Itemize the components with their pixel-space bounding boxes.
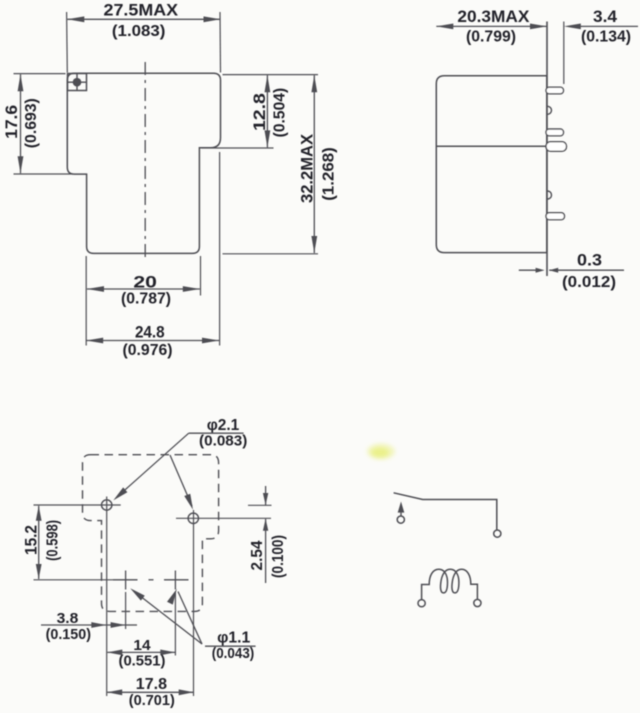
dimension 24.8 dimension line with arrows xyxy=(86,340,219,342)
svg-text:14: 14 xyxy=(133,637,151,654)
dimension 17.6 dimension line with arrows xyxy=(20,74,22,173)
dimension 3.8 line with arrows xyxy=(41,624,106,626)
hole circle 2 (phi 2.1) xyxy=(188,513,198,523)
underline of phi 2.1 label xyxy=(189,432,244,434)
dimension 15.2 bottom extension line xyxy=(34,579,114,581)
hole circle 1 (phi 2.1) xyxy=(102,500,112,510)
dimension 0.3 right arrow and leader xyxy=(549,268,558,273)
svg-text:(0.787): (0.787) xyxy=(121,291,171,308)
svg-text:24.8: 24.8 xyxy=(135,323,165,342)
leader line to cross 2 with arrow xyxy=(178,592,202,645)
svg-text:(1.083): (1.083) xyxy=(112,23,166,40)
svg-text:(0.100): (0.100) xyxy=(270,535,287,578)
svg-text:2.54: 2.54 xyxy=(249,540,266,570)
terminal circle (common) xyxy=(397,516,404,523)
svg-text:3.8: 3.8 xyxy=(57,610,79,627)
svg-text:(0.134): (0.134) xyxy=(581,29,631,46)
small bump 1 on plate xyxy=(548,106,552,114)
svg-text:12.8: 12.8 xyxy=(250,93,269,131)
pin 4 (side view) xyxy=(546,213,565,220)
dimension 20.3MAX dimension line with arrows xyxy=(436,25,547,27)
armature arrow at common terminal xyxy=(398,502,405,513)
cross 2 vertical arm (phi 1.1 hole) xyxy=(174,571,176,590)
leader line to circle 1 with arrow xyxy=(117,433,189,497)
dimension 17.6 extension lines xyxy=(14,73,66,75)
leader line to circle 2 with arrow xyxy=(170,455,192,506)
orientation mark (square with crosshair and filled circle) xyxy=(68,74,87,91)
dimension 12.8 bottom extension line xyxy=(202,147,274,149)
mounting plate vertical line (right edge extended) xyxy=(546,22,548,277)
svg-text:15.2: 15.2 xyxy=(22,525,41,555)
leader line to cross 1 with arrow xyxy=(133,591,202,645)
dimension 27.5MAX dimension line with arrows xyxy=(67,18,220,20)
svg-text:(0.083): (0.083) xyxy=(199,433,247,450)
dimension 32.2MAX bottom extension line xyxy=(223,253,319,255)
svg-text:0.3: 0.3 xyxy=(577,251,602,270)
svg-text:(0.150): (0.150) xyxy=(46,627,92,643)
dimension 17.8 dimension line with arrows xyxy=(107,691,194,693)
svg-text:(0.598): (0.598) xyxy=(45,520,62,561)
vertical line through circle 1 extending to 17.8 dim xyxy=(106,497,108,697)
dashed relay footprint outline (bottom view) xyxy=(83,455,219,612)
underline of phi 1.1 label xyxy=(205,645,256,647)
side view mid horizontal line xyxy=(436,145,547,147)
dimension 27.5MAX extension lines xyxy=(66,12,69,73)
svg-text:3.4: 3.4 xyxy=(593,7,618,26)
terminal circle (NO contact) xyxy=(494,530,501,537)
horizontal line through circle 1 / 15.2 top extension xyxy=(34,504,121,506)
svg-text:(0.799): (0.799) xyxy=(466,29,516,46)
small bump 2 on plate xyxy=(548,191,552,199)
relay body outline (side view) xyxy=(436,76,547,253)
dimension 20 right extension line xyxy=(200,256,202,296)
dimension 3.4 right arrow and leader xyxy=(564,24,581,30)
front view bottom-left extension line (shared by 20 and 24.8 dims) xyxy=(85,256,87,346)
relay body outline (front view) xyxy=(67,73,220,253)
svg-text:(0.043): (0.043) xyxy=(212,646,255,662)
dimension 15.2 dimension line with arrows xyxy=(38,506,40,579)
dimension 20 dimension line with arrows xyxy=(87,288,200,290)
dimension 32.2MAX dimension line with arrows xyxy=(313,75,315,253)
extension line for pin length 3.4 xyxy=(563,22,565,85)
pin 2 (side view) xyxy=(546,129,564,136)
dimension 0.3 left line and arrow xyxy=(519,269,539,271)
svg-text:(0.012): (0.012) xyxy=(562,274,616,291)
yellow highlighter blob xyxy=(367,444,395,460)
svg-text:φ2.1: φ2.1 xyxy=(207,417,240,434)
dash-dot line through phi1.1 crosses xyxy=(113,579,138,581)
shared top extension line for 12.8 and 32.2MAX dims xyxy=(223,74,319,76)
dimension 2.54 extension lines xyxy=(248,504,272,506)
pin 1 (side view) xyxy=(546,87,564,94)
coil terminal circle left xyxy=(418,600,425,607)
dimension 12.8 dimension line with arrows xyxy=(266,75,268,147)
cross 1 extension line down to 3.8 dim xyxy=(125,592,127,629)
dimension 14 dimension line with arrows xyxy=(107,651,175,653)
dimension 24.8 right extension line xyxy=(219,152,221,346)
svg-text:(0.504): (0.504) xyxy=(271,88,288,138)
svg-text:20.3MAX: 20.3MAX xyxy=(457,7,530,26)
vertical line through circle 2 extending to 17.8 dim xyxy=(193,510,195,696)
cross 2 extension line down to 14 dim xyxy=(174,592,176,656)
switch lever (movable contact) wire xyxy=(394,493,497,530)
svg-text:(0.701): (0.701) xyxy=(129,693,175,709)
coil winding symbol xyxy=(422,569,478,599)
svg-text:27.5MAX: 27.5MAX xyxy=(104,1,179,20)
svg-text:20: 20 xyxy=(133,272,157,291)
svg-text:φ1.1: φ1.1 xyxy=(217,630,251,647)
pin 3 large (side view) xyxy=(546,142,567,152)
svg-text:(0.976): (0.976) xyxy=(123,342,173,359)
svg-text:(0.693): (0.693) xyxy=(23,98,40,148)
horizontal line through circle 2 / 2.54 extension xyxy=(176,517,271,519)
cross 1 vertical arm (phi 1.1 hole) xyxy=(125,571,127,590)
svg-text:32.2MAX: 32.2MAX xyxy=(297,133,316,203)
svg-text:17.6: 17.6 xyxy=(2,105,21,139)
svg-text:17.8: 17.8 xyxy=(136,676,168,693)
coil terminal circle right xyxy=(474,599,481,606)
svg-text:(0.551): (0.551) xyxy=(119,654,166,670)
dimension 2.54 dimension line with outside arrows xyxy=(265,486,267,505)
svg-text:(1.268): (1.268) xyxy=(320,147,337,200)
vertical dash-dot centerline of front view xyxy=(144,62,146,258)
